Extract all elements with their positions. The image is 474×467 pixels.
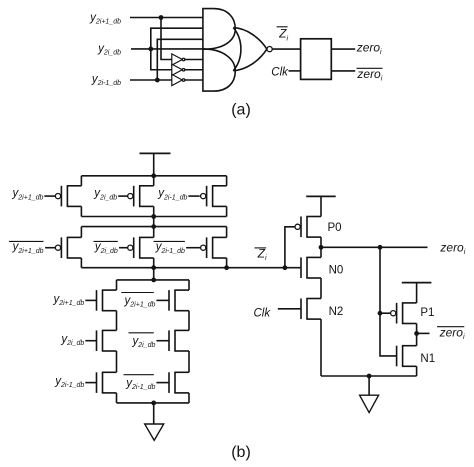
power VDD rail main [140, 153, 171, 185]
wire T2 to row2 [153, 206, 155, 237]
node NMOS bottom junction [151, 401, 156, 406]
transistor T5 PMOS y2i bar [128, 237, 154, 258]
label y2i_db row1 [93, 188, 117, 202]
wire Clk to N2 gate [278, 308, 301, 310]
wire gate T3 [188, 195, 199, 197]
node row1 drain junction [151, 214, 156, 219]
wire ground rail [321, 375, 417, 377]
svg-text:zeroi: zeroi [439, 240, 465, 256]
wire T3 to rails [226, 176, 228, 217]
node VDD junction [151, 173, 156, 178]
wire N0 to N2 [320, 278, 322, 299]
wire Zi node rail [81, 267, 301, 269]
wire gate nmos left 1 [85, 299, 96, 301]
wire row2 source rail [81, 226, 226, 228]
wire P0 gate to Zi [285, 227, 295, 268]
label y2i-1_db input a [91, 74, 121, 88]
wire y2i-1 to AND input 3 [157, 39, 203, 80]
wire input y2i+1_db [130, 17, 203, 19]
transistor N0 NMOS [301, 257, 321, 278]
wire NMOS block top rail [117, 279, 190, 281]
node junction y2i-1 [155, 78, 160, 83]
wire zero_i output a [331, 48, 355, 50]
transistor N right 2 y2i_db bar [169, 330, 189, 351]
wire gate T5 [119, 247, 128, 249]
node junction y2i+1 [159, 15, 164, 20]
label y2i-1_db row1 [157, 188, 187, 202]
wire y2i+1 to inverter 1 [161, 18, 172, 60]
wire P1 drain to N1 [416, 324, 418, 346]
node zero_i branch [378, 245, 383, 250]
wire zero_i bar output a [331, 70, 355, 72]
ground left [145, 403, 164, 440]
label zero_i b [439, 240, 465, 256]
wire Clk a [289, 70, 301, 72]
wire T5 to NMOS block [153, 258, 155, 280]
transistor T6 PMOS y2i-1 bar [201, 237, 227, 258]
svg-text:zeroi: zeroi [439, 325, 465, 341]
svg-text:(b): (b) [231, 444, 251, 461]
wire gate nmos left 2 [85, 340, 96, 342]
inverter 3 [172, 74, 203, 85]
wire Zi to latch [272, 48, 300, 50]
wire N1 to ground rail [416, 366, 418, 376]
node row2 source junction [151, 224, 156, 229]
wire gate T6 [186, 247, 200, 249]
wire row1 source rail [81, 175, 226, 177]
label y2i+1_db nmos left [52, 293, 84, 307]
label y2i+1_db bar row2 [9, 241, 44, 255]
transistor T4 PMOS y2i+1 bar [55, 237, 81, 258]
wire input y2i-1_db [130, 79, 172, 81]
label y2i+1_db row1 [12, 188, 44, 202]
svg-text:(a): (a) [231, 101, 251, 118]
power VDD rail P0 [306, 196, 336, 216]
inverter 1 [172, 54, 203, 65]
transistor N right 3 y2i-1_db bar [169, 372, 189, 393]
ground right [360, 374, 379, 413]
transistor N right 1 y2i+1_db bar [169, 290, 189, 311]
svg-text:Clk: Clk [254, 308, 272, 320]
wire T6 to rails [226, 227, 228, 268]
label y2i-1_db bar nmos right [124, 375, 156, 391]
label y2i+1_db bar nmos right [121, 293, 155, 309]
wire gate T1 [44, 195, 55, 197]
label y2i+1_db input a [89, 12, 121, 26]
label y2i-1_db bar row2 [154, 241, 185, 255]
wire nmos right stack connections [188, 280, 190, 403]
label y2i_db bar nmos right [129, 333, 156, 349]
label zero_i bar a [356, 67, 382, 83]
node Zi junction center [151, 265, 156, 270]
latch box U1 [301, 39, 332, 80]
wire input y2i_db [131, 48, 205, 50]
svg-text:P1: P1 [420, 307, 434, 319]
wire P1 gate [380, 312, 391, 314]
wire gate nmos right 2 [156, 340, 169, 342]
node zero_i bar [414, 331, 419, 336]
svg-text:P0: P0 [328, 222, 342, 234]
wire N2 to ground rail [320, 319, 322, 376]
transistor N left 3 y2i-1_db [97, 372, 117, 393]
power VDD rail P1 [402, 283, 432, 303]
label y2i_db bar row2 [94, 241, 118, 255]
wire row1 drain rail [81, 216, 226, 218]
node zero_i [319, 245, 324, 250]
inverter 2 [172, 64, 203, 75]
wire gate nmos right 3 [156, 382, 169, 384]
label y2i-1_db nmos left [54, 376, 84, 390]
label zero_i a [356, 40, 382, 56]
transistor N left 1 y2i+1_db [97, 290, 117, 311]
transistor T1 PMOS y2i+1 [55, 186, 81, 207]
transistor N left 2 y2i_db [97, 330, 117, 351]
wire T1 to rails [80, 176, 82, 217]
wire gate T4 [45, 247, 55, 249]
label y2i_db input a [97, 43, 121, 57]
label Zi bar b [255, 246, 267, 262]
wire zero_i to P1 N1 gates [380, 247, 397, 356]
wire T4 to rails [80, 227, 82, 268]
node NMOS top junction [151, 278, 156, 283]
label Zi bar a [277, 27, 289, 43]
label y2i_db nmos left [60, 334, 84, 348]
transistor T2 PMOS y2i [128, 186, 154, 207]
wire P0 drain to N0 [320, 237, 322, 257]
AND gate bottom [203, 49, 235, 91]
wire zero_i bar [417, 332, 430, 334]
svg-text:zeroi: zeroi [356, 67, 382, 83]
wire gate nmos left 3 [85, 382, 96, 384]
svg-text:N2: N2 [329, 306, 344, 318]
node junction y2i [148, 47, 153, 52]
node Zi junction P0 [283, 265, 288, 270]
NOR gate [233, 28, 272, 71]
AND gate top [203, 9, 235, 50]
transistor N1 NMOS [397, 346, 417, 367]
node Zi junction T6 [224, 265, 229, 270]
wire NMOS block bottom rail [117, 402, 190, 404]
label zero_i bar b [437, 325, 465, 341]
wire nmos left stack connections [116, 280, 118, 403]
wire y2i to AND input 2 and inverter 2 [151, 28, 203, 70]
svg-text:N1: N1 [420, 353, 435, 365]
transistor N2 NMOS [301, 299, 321, 320]
wire zero_i [321, 246, 428, 248]
svg-text:Clk: Clk [271, 67, 289, 79]
svg-text:zeroi: zeroi [356, 40, 382, 56]
transistor P0 PMOS [295, 217, 321, 238]
wire gate nmos right 1 [156, 299, 169, 301]
transistor T3 PMOS y2i-1 [201, 186, 227, 207]
wire gate T2 [118, 195, 128, 197]
svg-text:N0: N0 [329, 265, 344, 277]
node P1 gate junction [378, 311, 383, 316]
transistor P1 PMOS [391, 303, 417, 324]
